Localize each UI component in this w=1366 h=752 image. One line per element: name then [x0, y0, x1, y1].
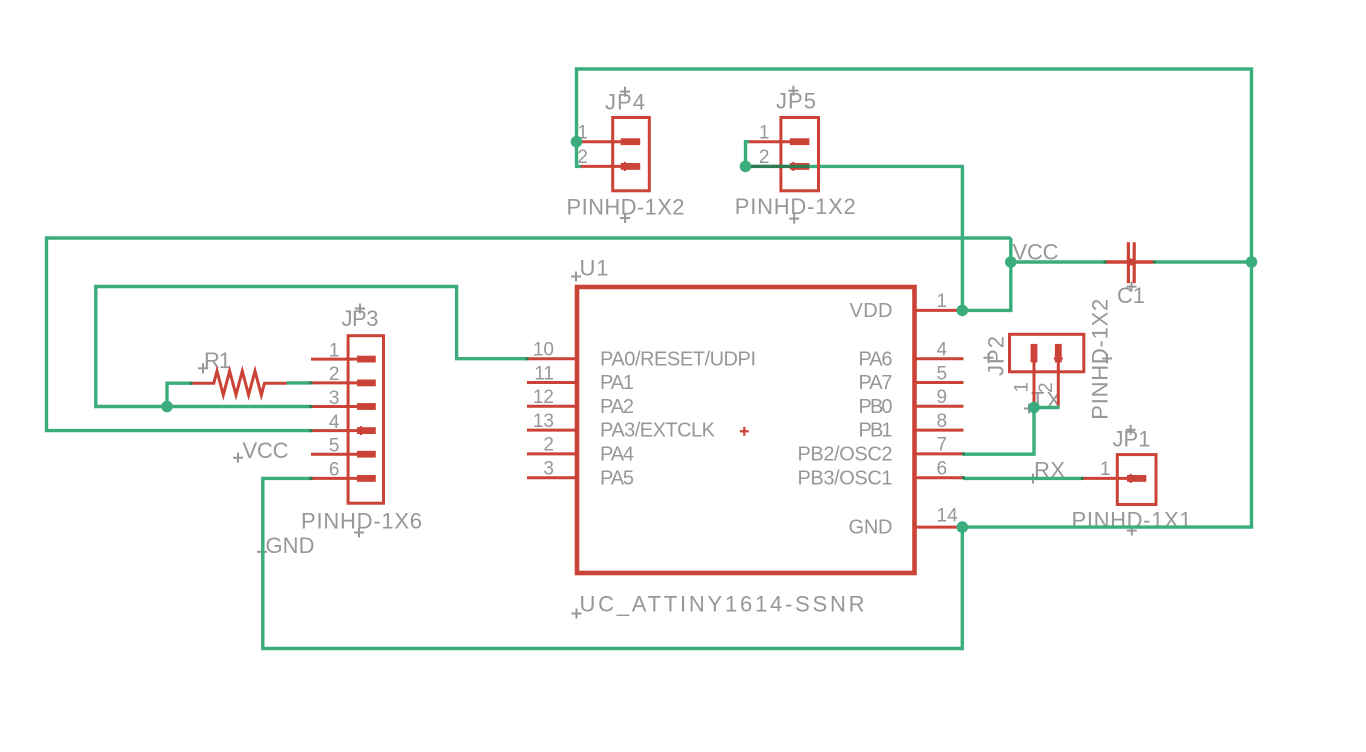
- svg-text:JP2: JP2: [984, 336, 1009, 376]
- junction R1 node: [161, 401, 173, 413]
- wire JP4 pin1 stub: [577, 140, 582, 143]
- junction VCC bend: [1005, 256, 1017, 268]
- origin cross TX: [1024, 404, 1034, 414]
- junction JP5 pin2: [740, 161, 752, 173]
- U1 origin cross (red, center): [740, 427, 749, 436]
- connector JP5 PINHD-1X2: [749, 118, 819, 191]
- wire VCC rail right of C1: [1155, 260, 1251, 263]
- svg-text:PB2/OSC2: PB2/OSC2: [798, 444, 893, 466]
- wire JP2 pin1 to pin2: [1034, 406, 1060, 409]
- wire U1 pin7 to JP2 pin1: [964, 408, 1035, 455]
- wire VDD to VCC corner: [962, 238, 1010, 310]
- junction VDD: [957, 305, 969, 317]
- wire R1 right lead to JP3 pin2: [287, 381, 312, 384]
- wire JP4 pin2 link: [575, 165, 581, 168]
- svg-text:VDD: VDD: [850, 300, 893, 322]
- origin cross JP3 value: [354, 528, 364, 538]
- wire R1 branch: [167, 383, 192, 406]
- wire GND bottom loop: [263, 478, 963, 648]
- pad cross JP5 pin2: [789, 162, 798, 171]
- wire overlap dark JP5 pin2: [749, 165, 809, 168]
- pad cross JP2 pin2: [1054, 354, 1063, 363]
- svg-text:1: 1: [1012, 382, 1033, 393]
- svg-text:PB0: PB0: [859, 396, 893, 418]
- svg-text:PB3/OSC1: PB3/OSC1: [798, 467, 893, 489]
- svg-text:U1: U1: [580, 256, 609, 281]
- svg-text:GND: GND: [849, 516, 893, 538]
- svg-text:PA2: PA2: [600, 396, 634, 418]
- U1 right pin stubs: [916, 309, 959, 312]
- svg-text:PB1: PB1: [859, 420, 893, 442]
- origin cross JP3: [355, 304, 365, 314]
- svg-text:14: 14: [937, 506, 959, 527]
- origin cross JP2: [984, 353, 994, 363]
- junction JP2 pin1: [1028, 402, 1040, 414]
- wire JP5 pin1 to pin2 bend: [746, 142, 750, 167]
- junction GND pin14: [957, 521, 969, 533]
- origin cross JP4: [620, 87, 630, 97]
- connector JP4 PINHD-1X2: [581, 118, 649, 191]
- wire overlap dark marks: [190, 262, 1156, 478]
- svg-text:PA6: PA6: [859, 348, 893, 370]
- origin cross R1: [198, 363, 208, 373]
- connector JP2 PINHD-1X2 rotated: [1010, 334, 1084, 407]
- svg-text:PINHD-1X6: PINHD-1X6: [301, 509, 422, 534]
- svg-text:JP5: JP5: [776, 89, 816, 114]
- svg-text:2: 2: [759, 147, 770, 168]
- connector JP3 PINHD-1X6: [311, 336, 384, 504]
- origin cross U1: [571, 272, 581, 282]
- wire VCC rail left of C1: [1011, 260, 1106, 263]
- junction JP4 pin1: [571, 136, 583, 148]
- svg-text:VCC: VCC: [243, 438, 289, 463]
- wire JP5 pin2 to VDD: [746, 166, 963, 310]
- origin cross C1: [1127, 282, 1137, 292]
- svg-text:GND: GND: [266, 533, 315, 558]
- origin cross JP1: [1126, 425, 1136, 435]
- origin cross JP4 value: [620, 213, 630, 223]
- svg-text:2: 2: [577, 147, 588, 168]
- wire inner loop to U1 pin10: [96, 287, 527, 407]
- connector JP1 PINHD-1X1: [1082, 455, 1156, 505]
- origin cross U1 value: [572, 609, 582, 619]
- svg-text:PA5: PA5: [600, 467, 634, 489]
- origin cross JP5: [788, 86, 798, 96]
- origin cross JP2 value: [1102, 354, 1112, 364]
- op U1 UC_ATTINY1614-SSNR body: [577, 287, 915, 573]
- svg-text:PA7: PA7: [859, 372, 893, 394]
- resistor R1: [192, 371, 287, 395]
- pad cross JP1 pin1: [1126, 474, 1135, 483]
- U1 left pin stubs: [527, 310, 964, 527]
- origin cross JP5 value: [789, 214, 799, 224]
- pad cross JP4 pin2: [620, 162, 629, 171]
- wire outer VCC loop: [47, 238, 1011, 431]
- origin cross GND: [257, 547, 267, 557]
- svg-text:1: 1: [937, 291, 948, 312]
- svg-text:1: 1: [1100, 459, 1111, 480]
- origin cross VCC left: [233, 453, 243, 463]
- svg-text:PA1: PA1: [600, 372, 634, 394]
- origin cross RX: [1028, 474, 1038, 484]
- svg-text:PA0/RESET/UDPI: PA0/RESET/UDPI: [600, 348, 756, 370]
- origin cross JP1 value: [1127, 526, 1137, 536]
- junction VCC right rail: [1246, 256, 1258, 268]
- wire U1 pin6 RX to JP1: [964, 477, 1083, 480]
- svg-text:PA3/EXTCLK: PA3/EXTCLK: [600, 420, 716, 442]
- svg-text:UC_ATTINY1614-SSNR: UC_ATTINY1614-SSNR: [580, 592, 865, 617]
- svg-text:PINHD-1X2: PINHD-1X2: [735, 194, 856, 219]
- capacitor C1: [1106, 242, 1154, 283]
- wire top rail N$1: [577, 69, 1252, 527]
- pad cross JP3 pin4: [357, 426, 366, 435]
- svg-text:PA4: PA4: [600, 444, 634, 466]
